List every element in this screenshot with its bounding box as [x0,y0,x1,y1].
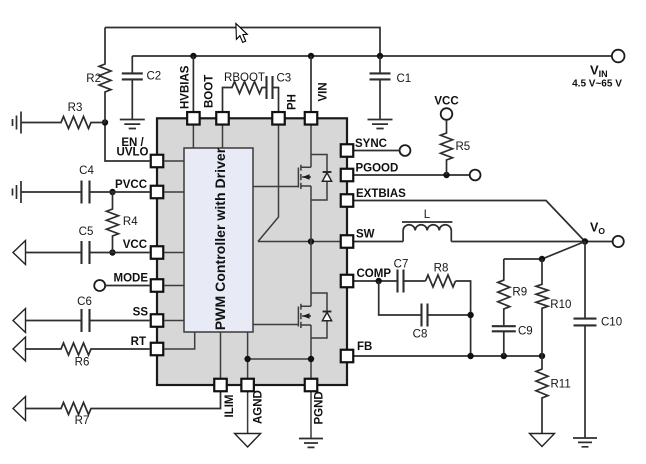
svg-text:RBOOT: RBOOT [224,72,265,84]
svg-text:COMP: COMP [357,268,392,280]
label HVBIAS [180,65,192,109]
label SW [356,229,375,241]
node FB junction 3 [539,353,545,359]
label RBOOT [224,72,265,84]
transistor Q2 low-side MOSFET [298,304,311,328]
svg-text:L: L [424,209,431,221]
pin VIN [305,112,318,125]
label C5 [79,226,94,238]
svg-text:R2: R2 [86,73,101,85]
capacitor C1 [370,56,391,119]
label PH [287,94,299,110]
wire COMP to network [354,280,398,282]
label MODE [114,273,149,285]
label PVCC [115,179,147,191]
resistor R4 [107,192,119,253]
terminal MODE [94,280,105,291]
wire C7 to R8 [404,280,426,282]
svg-text:4.5 V~65 V: 4.5 V~65 V [572,79,622,90]
wire HVBIAS pin to controller [192,126,194,149]
label R6 [75,357,90,369]
resistor R7 [26,392,221,415]
wire EN/UVLO from R2/R3 node [105,123,150,162]
diode D2 body diode of Q2 [311,293,332,338]
wire R8 to FB drop [456,281,471,356]
svg-text:C6: C6 [77,296,92,308]
terminal Vo [613,236,624,247]
resistor R2 [99,28,111,123]
resistor R8 [426,275,456,287]
ground left of R3 [13,112,22,134]
ground left of C4 [13,181,22,203]
label C2 [147,71,162,83]
label R8 [434,263,449,275]
ground under C1 [368,120,393,129]
label C7 [394,259,409,271]
svg-text:HVBIAS: HVBIAS [180,65,192,109]
svg-text:PGND: PGND [314,391,326,424]
svg-text:R10: R10 [550,299,571,311]
label R2 [86,73,101,85]
label SYNC [355,138,387,150]
svg-text:PGOOD: PGOOD [356,163,399,175]
pin ILIM [214,379,227,392]
wire Q1 source to SW node [310,186,312,242]
svg-text:BOOT: BOOT [204,75,216,108]
label Vo [590,221,605,237]
capacitor C4 [21,181,150,204]
wire RT pin to controller [165,332,195,349]
pin SW [341,235,354,248]
node divider top junction [539,256,545,262]
label R9 [512,286,527,298]
node COMP junction [376,278,382,284]
wire SS pin to controller [165,320,185,322]
capacitor C8 [422,304,428,327]
node HVBIAS rail junction [190,53,196,59]
wire inductor to Vo terminal [451,241,612,243]
label SS [133,307,149,319]
label VIN terminal [572,63,622,90]
capacitor C5 [26,241,150,264]
wire C8 to FB drop [428,314,471,316]
pin PGND [305,379,318,392]
resistor R6 [26,343,150,355]
wire Vo diagonal to divider [504,242,585,260]
svg-text:VCC: VCC [123,239,147,251]
label AGND [253,390,265,424]
svg-text:SYNC: SYNC [355,138,387,150]
wire SW to inductor [354,241,404,243]
capacitor C9 [492,326,516,356]
label VCC terminal [434,96,458,108]
wire MODE pin to controller [165,285,185,287]
wire top loop from R2 to VIN rail [105,28,380,57]
svg-text:RT: RT [131,336,146,348]
wire EN/UVLO pin to controller [165,160,185,162]
pin PVCC [151,186,164,199]
capacitor C6 [26,309,150,332]
node PGND junction [308,356,314,362]
label C9 [518,326,533,338]
wire Q1 gate from controller [253,186,298,188]
inductor L [402,222,452,242]
pin MODE [151,279,164,292]
label C4 [79,165,94,177]
capacitor C7 [398,270,404,293]
label VCC pin [123,239,147,251]
capacitor C2 [122,56,143,119]
wire HVBIAS drop [192,56,194,111]
wire AGND pin to controller [247,332,249,379]
pin SYNC [341,144,354,157]
wire MODE [105,285,149,287]
pin EN/UVLO [151,155,164,168]
svg-text:R8: R8 [434,263,449,275]
terminal VIN [612,50,625,63]
svg-text:C3: C3 [277,73,292,85]
label PGOOD [356,163,399,175]
capacitor C3 [267,76,279,111]
svg-text:PVCC: PVCC [115,179,147,191]
svg-text:R4: R4 [123,216,138,228]
label R4 [123,216,138,228]
pin FB [341,350,354,363]
svg-text:UVLO: UVLO [117,147,149,159]
svg-text:C5: C5 [79,226,94,238]
wire Q2 gate from controller [253,324,298,326]
pin COMP [341,275,354,288]
connector triangle C5 line [13,241,26,265]
label C8 [413,329,428,341]
pin EXTBIAS [341,194,354,207]
ground triangle under R11 [530,434,555,447]
node VCC R4 junction [109,249,115,255]
wire FB line [354,355,543,357]
node C1 rail junction [377,53,383,59]
connector triangle SS line [13,309,26,333]
label ILIM [224,395,236,418]
label EXTBIAS [356,188,406,200]
wire BOOT pin to controller [222,126,224,149]
svg-text:C7: C7 [394,259,409,271]
svg-text:MODE: MODE [114,273,149,285]
svg-text:C2: C2 [147,71,162,83]
wire EXTBIAS to Vo node [354,201,586,242]
label R7 [75,415,90,427]
svg-text:C9: C9 [518,326,533,338]
capacitor C10 [574,242,597,438]
wire ILIM pin to controller [220,332,222,379]
svg-text:VIN: VIN [318,82,330,101]
connector triangle RT line [13,337,26,361]
pin SS [151,314,164,327]
wire VIN pin to Q1 drain [310,126,312,168]
wire SW node to Q2 drain [310,242,312,307]
label FB [357,341,372,353]
label C3 [277,73,292,85]
node SW junction [308,238,314,244]
pin PH [272,112,285,125]
node C8 R8 junction [467,312,473,318]
label R11 [551,379,571,391]
wire AGND to PGND internal [248,358,311,360]
svg-text:SS: SS [133,307,149,319]
pin BOOT [216,112,229,125]
svg-text:R9: R9 [512,286,527,298]
svg-text:VCC: VCC [434,96,458,108]
svg-text:VO: VO [590,221,605,237]
label RT [131,336,146,348]
svg-text:ILIM: ILIM [224,395,236,418]
resistor R11 [536,356,548,433]
label BOOT [204,75,216,108]
svg-text:VIN: VIN [590,63,608,80]
resistor R5 [441,120,453,175]
label R10 [550,299,571,311]
node R2 R3 EN junction [102,119,108,125]
IC body U1 [157,118,347,385]
cursor [236,24,247,43]
terminal VCC [441,108,453,120]
pin HVBIAS [187,112,200,125]
diode D1 body diode of Q1 [311,155,332,201]
wire SYNC to terminal [354,150,400,152]
node FB junction 2 [501,353,507,359]
pin AGND [241,379,254,392]
label R3 [68,102,83,114]
node FB junction 1 [467,353,473,359]
node Vo junction [582,238,588,244]
wire SW node horizontal [258,241,341,243]
svg-text:C4: C4 [79,165,94,177]
terminal SYNC [400,145,411,156]
wire PGOOD to terminal [354,174,470,176]
pin RT [151,343,164,356]
svg-text:EXTBIAS: EXTBIAS [356,188,406,200]
pin PGOOD [341,169,354,182]
svg-text:R3: R3 [68,102,83,114]
wire PVCC pin to controller [165,191,185,193]
svg-text:R11: R11 [551,379,571,391]
resistor R9 [498,259,510,325]
PWM controller block [184,147,253,332]
label L [424,209,431,221]
svg-text:FB: FB [357,341,372,353]
svg-text:R7: R7 [75,415,90,427]
ground under C10 [573,438,597,447]
svg-text:PH: PH [287,94,299,110]
node PGOOD R5 junction [443,172,449,178]
svg-text:SW: SW [356,229,375,241]
ground under PGND [299,392,323,448]
svg-text:PWM Controller with Driver: PWM Controller with Driver [212,147,228,330]
resistor R3 [21,117,105,129]
wire C8 lower branch [379,281,421,315]
label COMP [357,268,392,280]
label VIN pin [318,82,330,101]
svg-text:R6: R6 [75,357,90,369]
resistor RBOOT [223,82,267,112]
terminal PGOOD [470,170,481,181]
label R5 [456,141,471,153]
label PGND [314,391,326,424]
svg-text:C10: C10 [601,317,622,329]
connector triangle R7 line [13,397,26,421]
label C10 [601,317,622,329]
node PVCC R4 junction [109,189,115,195]
svg-text:R5: R5 [456,141,471,153]
ground under C2 [120,120,145,129]
transistor Q1 high-side MOSFET [298,165,311,189]
wire VIN rail [132,55,611,57]
resistor R10 [536,259,548,356]
svg-text:C8: C8 [413,329,428,341]
node VIN pin rail junction [308,53,314,59]
wire VCC pin to controller [165,252,185,254]
node AGND junction [244,356,250,362]
ground triangle under AGND [235,392,261,448]
pin VCC [151,246,164,259]
label C1 [397,73,412,85]
label C6 [77,296,92,308]
label EN/UVLO [117,137,149,159]
wire Q2 source to PGND [310,325,312,379]
svg-text:AGND: AGND [253,390,265,424]
wire VIN pin drop [310,56,312,111]
svg-text:C1: C1 [397,73,412,85]
wire PH pin to SW node [258,126,279,242]
